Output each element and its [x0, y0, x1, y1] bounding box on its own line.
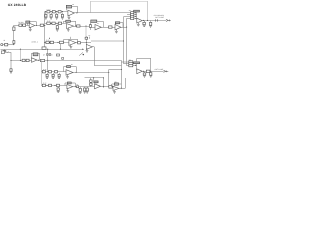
op-amp U8A — [137, 18, 142, 23]
ground A1 — [45, 17, 48, 19]
node M2 out junction — [126, 27, 127, 28]
wire M2 plus stub — [116, 29, 118, 31]
ground at U4B — [86, 50, 89, 52]
ground at U2A — [68, 17, 71, 19]
wire C2 fb right — [75, 21, 77, 26]
wire B feedback top — [28, 21, 37, 23]
wire B output — [35, 25, 45, 27]
ground D3 — [58, 77, 61, 79]
ground S1 — [149, 25, 152, 27]
wire S1 plus stub — [138, 23, 140, 24]
capacitor C53 — [86, 88, 88, 91]
wire A plus stub — [68, 15, 70, 17]
wire F stack vert — [90, 78, 92, 87]
wire J2 out — [5, 52, 12, 54]
connector J1 input jack — [1, 44, 3, 46]
wire shunt A3 — [56, 13, 58, 15]
wire S1 node vert — [136, 13, 138, 19]
resistor R103 — [131, 17, 134, 19]
op-amp U8B — [137, 69, 143, 74]
resistor R110 — [129, 61, 133, 63]
resistor R3 on riser — [13, 41, 15, 44]
resistor R84 — [77, 86, 79, 88]
wire C output — [37, 60, 121, 62]
op-amp U1B — [29, 23, 35, 28]
node C3 tap dot — [48, 37, 51, 40]
capacitor C64 — [150, 73, 152, 76]
wire row3 stub — [127, 65, 129, 67]
wire C3 fb left — [63, 39, 65, 42]
node S1 n3 — [134, 15, 137, 18]
resistor R6 — [40, 24, 43, 26]
node D drop junction — [108, 72, 109, 73]
wire F fb stub — [95, 83, 97, 84]
capacitor C41 — [52, 74, 54, 76]
capacitor C2 input — [5, 43, 8, 46]
wire row2 stub — [124, 63, 129, 65]
wire E output — [73, 86, 91, 88]
capacitor C52 — [84, 88, 86, 91]
wire E fb top — [65, 82, 75, 84]
node S2 out junction — [143, 71, 144, 72]
wire C2 output — [74, 26, 91, 28]
resistor R61 — [22, 59, 25, 61]
wire row C2 chain — [45, 23, 67, 25]
wire C3 output — [76, 42, 91, 44]
resistor R24 — [77, 25, 80, 27]
svg-text:10k: 10k — [129, 59, 132, 61]
svg-text:R8: R8 — [72, 4, 74, 6]
node S2 fb junction — [150, 71, 151, 72]
wire C3 tap stub — [49, 38, 51, 39]
ground C3a — [70, 46, 73, 48]
wire F output — [101, 86, 114, 88]
wire C fb right — [39, 54, 41, 61]
node B output junction — [36, 25, 37, 26]
wire E feed vertical — [41, 60, 43, 85]
svg-text:C9: C9 — [88, 35, 90, 37]
node rowA start — [45, 11, 46, 12]
ground C2b — [67, 29, 70, 31]
op-amp U4B — [86, 44, 92, 49]
wire J1 to node — [3, 44, 14, 46]
wire row1 stub — [121, 61, 128, 63]
wire F in — [91, 86, 95, 88]
capacitor C13 — [61, 14, 63, 17]
svg-text:IC2: IC2 — [97, 23, 99, 25]
resistor R102 — [131, 15, 134, 17]
wire H out drop — [94, 47, 96, 66]
node A out junction — [76, 12, 77, 13]
node C2 out junction — [75, 26, 76, 27]
resistor R82 — [57, 84, 60, 86]
ground at U1B — [29, 29, 32, 31]
ground E4 — [86, 91, 89, 93]
capacitor C40 — [46, 74, 48, 76]
wire G output — [119, 88, 125, 90]
resistor R60 — [10, 69, 12, 71]
wire main bus — [1, 49, 85, 51]
ground at U6B — [67, 90, 70, 92]
node vert-C3 junction — [44, 42, 45, 43]
node vert-A junction — [44, 25, 45, 26]
wire H vert from C2out — [85, 26, 87, 37]
resistor R11 — [52, 11, 55, 13]
resistor R4 — [19, 24, 22, 26]
capacitor C63 — [143, 22, 145, 24]
wire C2 shunt — [57, 25, 59, 26]
node C3 j2 — [57, 42, 58, 43]
resistor R92 feedback — [94, 81, 98, 83]
wire S2 row3 — [129, 65, 137, 67]
ground A2 — [50, 17, 53, 19]
wire input riser — [13, 25, 15, 44]
resistor R41 — [50, 41, 53, 43]
capacitor C60 — [149, 22, 151, 25]
resistor R81 — [49, 84, 52, 86]
resistor R83 feedback — [67, 82, 71, 84]
wire D fb right — [76, 67, 78, 73]
connector J2 input jack — [1, 51, 4, 54]
wire S2 shunt stub — [144, 71, 146, 73]
wire shunt D2 — [53, 73, 55, 74]
capacitor C62 — [143, 73, 146, 75]
resistor R93 — [109, 86, 112, 88]
wire S2 output — [142, 71, 163, 73]
ground D2 — [52, 77, 55, 79]
wire A feedback left — [66, 8, 68, 10]
resistor R2 on riser — [13, 27, 15, 31]
wire bus diag tick — [7, 52, 8, 53]
wire top loop right — [147, 1, 149, 20]
connector J3 output — [166, 19, 168, 21]
resistor R112 — [129, 64, 133, 66]
wire V2 vertical — [123, 17, 125, 64]
ground D1 — [46, 77, 49, 79]
wire C2 plus stub — [68, 27, 70, 29]
wire J2 riser — [10, 52, 12, 69]
wire M1-M2 — [101, 27, 115, 29]
wire M2 fb top — [120, 22, 123, 24]
wire D fb top — [64, 66, 77, 68]
node F out junction — [103, 86, 104, 87]
op-amp U2B — [67, 24, 74, 29]
wire row E chain — [41, 85, 67, 87]
node E out junction — [75, 86, 76, 87]
op-amp U7A — [95, 84, 101, 89]
wire M1 fb drop — [90, 22, 92, 30]
resistor R20 — [47, 22, 50, 24]
resistor R100 — [131, 12, 134, 14]
wire band bus vertical — [44, 12, 46, 47]
ground at U3B — [115, 31, 118, 33]
wire M1 in — [90, 27, 95, 29]
wire bus drop to C — [20, 49, 22, 60]
resistor R94 feedback — [114, 83, 118, 85]
wire shunt E3 — [84, 87, 86, 88]
wire B plus stub — [30, 27, 32, 29]
wire G fb left — [111, 84, 113, 87]
capacitor C30 bus — [4, 50, 6, 51]
wire B feedback left — [27, 22, 29, 25]
wire shunt A2 — [51, 13, 53, 15]
wire H out run — [94, 65, 121, 67]
resistor R50 — [85, 37, 88, 39]
wire E fb left — [64, 83, 66, 85]
node C in junction — [20, 60, 21, 61]
capacitor C1 — [23, 24, 26, 26]
wire C3 plus stub — [70, 45, 72, 47]
wire S2 fb lvert — [136, 58, 138, 62]
resistor R42 — [59, 41, 63, 43]
wire V3 vertical — [126, 18, 128, 65]
svg-text:R7: R7 — [71, 64, 73, 66]
wire shunt E1 — [58, 87, 60, 88]
wire H line stub — [89, 37, 91, 39]
connector J4 output — [164, 70, 166, 72]
ground at U6A — [66, 76, 69, 78]
wire H fb tick — [86, 36, 88, 37]
resistor R31 input — [89, 25, 91, 28]
resistor R5 feedback — [26, 21, 30, 23]
capacitor C12 — [56, 14, 58, 17]
node C2 j2 — [56, 23, 57, 24]
wire D drop vert — [108, 70, 110, 87]
node E j2 — [54, 85, 55, 86]
resistor R70 — [42, 71, 45, 73]
wire G fb top — [112, 83, 121, 85]
svg-text:1k 1k: 1k 1k — [47, 20, 51, 22]
node S2 n2 — [134, 62, 137, 65]
node gamma junction — [120, 68, 123, 71]
resistor R90 — [90, 80, 92, 82]
wire G fb right — [121, 84, 123, 88]
wire C2 fb top — [63, 21, 76, 23]
wire pot diag — [79, 52, 83, 55]
wire M1 fb right — [103, 21, 105, 27]
capacitor C31 — [47, 54, 49, 56]
wire C2 fb left — [63, 21, 65, 23]
wire D output — [73, 72, 109, 74]
wire M2 fb left — [115, 24, 117, 26]
ground E3 — [83, 91, 86, 93]
wire S1 row1 — [131, 12, 137, 14]
resistor R32 — [109, 26, 113, 28]
wire G riser — [125, 78, 127, 88]
svg-text:GX 240LLB: GX 240LLB — [8, 3, 27, 7]
wire S2 fb top — [137, 58, 151, 60]
node D out junction — [76, 72, 77, 73]
ground C2a — [56, 29, 59, 31]
wire C3 fb top — [64, 39, 78, 41]
resistor R111 — [129, 63, 133, 65]
capacitor C32 — [49, 54, 51, 56]
ground J2 — [10, 71, 13, 73]
wire H plus stub — [86, 48, 88, 50]
wire S1 row4 — [127, 18, 137, 20]
wire C input — [11, 60, 32, 62]
wire F top rail — [85, 77, 104, 79]
node C3-H junction — [86, 42, 87, 43]
svg-text:1k 1k: 1k 1k — [43, 69, 47, 71]
op-amp U3B — [115, 25, 121, 30]
resistor R12 — [58, 11, 61, 13]
node C3 bus junction — [60, 49, 61, 50]
node S1 out junction — [143, 20, 144, 21]
wire row A chain — [45, 11, 68, 13]
wire shunt E4 — [87, 87, 89, 88]
wire E plus stub — [67, 89, 69, 91]
wire gamma run — [109, 69, 122, 71]
op-amp U5A — [32, 58, 38, 63]
resistor R30 feedback — [91, 20, 97, 22]
resistor R113 feedback — [134, 62, 140, 64]
resistor R91 — [90, 83, 92, 85]
node bus tap H — [82, 49, 83, 50]
resistor R23 feedback — [66, 20, 71, 22]
node rowA j3 — [62, 11, 63, 12]
wire F fb left — [93, 78, 95, 81]
resistor R62 — [26, 59, 29, 61]
svg-text:C5: C5 — [76, 84, 78, 86]
op-amp U7B — [113, 86, 119, 90]
ground A3 — [55, 17, 58, 19]
node J1A junction — [13, 44, 14, 45]
wire shunt A4 — [62, 13, 64, 15]
node bus tap C — [20, 49, 21, 50]
wire shunt A1 — [45, 12, 47, 15]
node S2 n1 — [134, 61, 137, 64]
wire M2 fb right — [122, 23, 124, 27]
wire S2 fb rvert — [150, 58, 152, 71]
node G out junction — [121, 88, 122, 89]
node S1 n2 — [134, 13, 137, 16]
wire B input chain — [14, 25, 29, 27]
node F rail j2 — [103, 77, 104, 78]
ground E1 — [57, 91, 60, 93]
capacitor C33 marker — [62, 58, 64, 60]
wire A feedback right — [77, 7, 79, 13]
node J2 junction — [10, 60, 11, 61]
node bus tap D — [47, 49, 48, 50]
resistor R7 to bus — [42, 47, 46, 50]
wire A feedback top — [72, 6, 78, 8]
node S1 n1 — [134, 11, 137, 14]
wire C3 mid shunt — [60, 44, 62, 50]
wire S1 row3 — [124, 16, 137, 18]
wire M1 fb top — [97, 21, 103, 23]
ground S2b — [149, 75, 152, 77]
wire top loop horizontal — [91, 1, 148, 3]
wire S1 shunt stub2 — [150, 20, 152, 22]
wire C fb top — [31, 53, 40, 55]
wire B feedback right — [36, 22, 38, 26]
wire row D chain — [41, 71, 66, 73]
wire V1 vertical — [121, 60, 123, 84]
node S1 fb junction — [147, 20, 148, 21]
wire E fb right — [75, 83, 77, 87]
ground S1b — [143, 25, 146, 27]
ground S2a — [143, 75, 146, 77]
node E j1 — [46, 85, 47, 86]
wire S2 row2 — [129, 63, 137, 65]
svg-text:1k 1k: 1k 1k — [43, 83, 47, 85]
wire H out — [92, 46, 94, 48]
resistor R63 feedback — [33, 53, 38, 56]
node F rail j1 — [93, 77, 94, 78]
resistor R43 — [78, 42, 81, 44]
wire M2 output — [121, 27, 127, 29]
op-amp U6A — [66, 70, 73, 76]
wire D feed vertical — [47, 49, 49, 71]
node D feed junction — [47, 71, 48, 72]
op-amp U4A — [69, 40, 76, 46]
resistor R22 — [58, 22, 61, 24]
svg-text:10k: 10k — [129, 10, 132, 12]
node C out junction — [38, 60, 39, 61]
wire S1 shunt stub — [144, 20, 146, 22]
resistor R40 — [46, 41, 49, 43]
wire D fb left — [63, 67, 65, 72]
wire line to V2 — [91, 40, 124, 42]
svg-text:1k 1k: 1k 1k — [46, 40, 50, 42]
node C2-H junction — [85, 26, 86, 27]
resistor R10 — [47, 11, 50, 13]
ground at U7B — [113, 91, 116, 93]
node C2 j1 — [51, 23, 52, 24]
resistor R21 — [52, 22, 55, 24]
wire C3 fb right — [77, 39, 79, 42]
node pot dot — [83, 54, 84, 55]
node V2-C3 junction — [122, 40, 125, 43]
capacitor C11 — [50, 14, 52, 17]
node C-D junction — [47, 60, 48, 61]
resistor R71 — [49, 71, 52, 73]
resistor R13 feedback — [66, 5, 71, 8]
svg-text:R9: R9 — [115, 81, 117, 83]
resistor R33 feedback — [115, 22, 120, 24]
wire C fb left — [31, 54, 33, 59]
ground A4 — [61, 17, 64, 19]
node rowA j2 — [56, 11, 57, 12]
wire shunt E2 — [80, 87, 82, 89]
wire S1 output — [142, 20, 166, 22]
op-amp U2A — [68, 10, 74, 16]
wire A long output — [74, 12, 130, 14]
capacitor C51 — [79, 88, 81, 91]
wire shunt D1 — [47, 73, 49, 74]
wire top loop left — [90, 1, 92, 13]
capacitor C61 series — [155, 19, 157, 21]
svg-text:C: C — [6, 51, 7, 53]
wire row C3 chain — [45, 42, 69, 44]
wire shunt D3 — [59, 73, 61, 74]
ground at U8A plus — [137, 24, 140, 26]
resistor R73 feedback — [67, 66, 71, 68]
wire F out vert — [103, 78, 105, 87]
resistor R65 — [57, 54, 60, 56]
svg-text:R C R: R C R — [47, 9, 51, 11]
wire S2 row1 — [129, 61, 137, 63]
resistor R101 — [131, 14, 134, 16]
node S1 n4 — [134, 17, 137, 20]
resistor R104 feedback — [134, 10, 140, 12]
capacitor C50 — [57, 88, 59, 90]
node C3 j1 — [49, 42, 50, 43]
wire G plus stub — [114, 90, 116, 91]
wire bus sub stub — [4, 49, 6, 50]
resistor R114 — [146, 70, 150, 72]
